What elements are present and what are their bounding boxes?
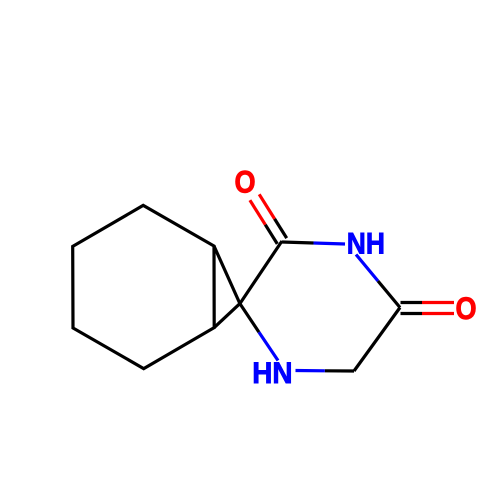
bond C3-C2 bbox=[240, 241, 282, 304]
bond C2-N1 blue half bbox=[314, 243, 346, 244]
cyclopropane bond C3-V1 bbox=[214, 246, 240, 304]
bond N4-C3 black half bbox=[240, 304, 259, 333]
double bond C2=O black half bbox=[275, 219, 287, 238]
double bond C2=O black half bbox=[265, 225, 277, 244]
svg-text:NH: NH bbox=[347, 226, 385, 260]
bond C6-C5 bbox=[354, 308, 400, 372]
cyclohexane ring (left hexagon) bbox=[73, 205, 215, 368]
double bond C6=O black half bbox=[401, 312, 423, 315]
double bond C6=O red half bbox=[422, 312, 454, 315]
svg-text:HN: HN bbox=[252, 357, 292, 390]
double bond C2=O red half bbox=[250, 200, 265, 225]
cyclopropane bond C3-V2 bbox=[214, 304, 240, 328]
double bond C6=O red half bbox=[422, 301, 454, 304]
bond N4-C3 blue half bbox=[259, 332, 278, 360]
double bond C2=O red half bbox=[259, 194, 274, 219]
bond N1-C6 black half bbox=[378, 281, 400, 308]
svg-text:O: O bbox=[455, 291, 476, 326]
bond C5-N4 black half bbox=[325, 369, 354, 372]
bond C2-N1 black half bbox=[282, 242, 314, 243]
double bond C6=O black half bbox=[401, 301, 423, 304]
bond C5-N4 blue half bbox=[296, 369, 325, 372]
svg-text:O: O bbox=[234, 165, 255, 200]
bond N1-C6 blue half bbox=[356, 255, 378, 282]
